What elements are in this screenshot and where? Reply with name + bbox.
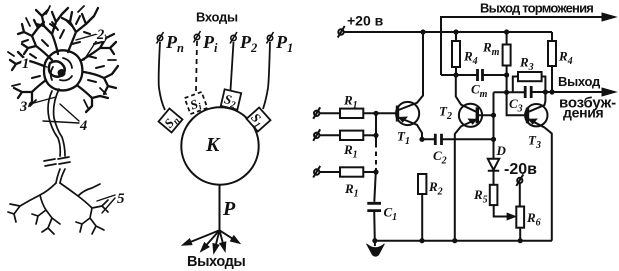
wire C2 line xyxy=(422,138,494,140)
neuron dendrites N xyxy=(36,8,68,54)
input terminal Pi xyxy=(194,31,201,43)
svg-text:-20в: -20в xyxy=(504,161,537,178)
svg-text:R1: R1 xyxy=(343,142,358,161)
synapse box Sn xyxy=(159,109,184,134)
resistor R1b xyxy=(340,131,363,140)
svg-text:C2: C2 xyxy=(433,148,447,167)
wire D-R5 xyxy=(493,171,495,185)
svg-text:Rm: Rm xyxy=(482,40,500,59)
svg-text:T2: T2 xyxy=(439,104,452,123)
wire R4r bottom xyxy=(551,66,553,92)
svg-text:Pn: Pn xyxy=(165,32,184,55)
wire Pn to Sn xyxy=(159,42,165,110)
input bus wire solid upper xyxy=(375,113,377,143)
svg-text:P2: P2 xyxy=(239,32,257,55)
axon right terminal branch xyxy=(60,183,108,234)
wire R2 bottom xyxy=(421,194,423,241)
input terminal P1 xyxy=(267,32,274,44)
axon break marks xyxy=(44,157,70,166)
ground xyxy=(374,241,376,246)
neuron dendrites E upper xyxy=(82,30,116,60)
neuron soma xyxy=(44,50,82,90)
transistor T2 xyxy=(459,104,482,127)
svg-text:R4: R4 xyxy=(558,49,573,68)
wire -20v to R6 xyxy=(519,183,521,207)
svg-text:4: 4 xyxy=(79,118,87,134)
svg-text:Выходы: Выходы xyxy=(187,254,245,270)
junction dots xyxy=(372,29,554,243)
svg-text:Выход: Выход xyxy=(558,74,601,89)
wire Rm bottom xyxy=(506,66,508,76)
resistor R1a xyxy=(340,109,363,118)
wire Rm top xyxy=(506,32,508,45)
wire C1-rail xyxy=(373,211,376,241)
resistor R3 xyxy=(518,72,542,81)
capacitor C3 xyxy=(525,86,531,98)
neuron label 4 pointer xyxy=(43,104,79,123)
synapse box S2 xyxy=(220,89,241,111)
wire R6 bottom xyxy=(519,228,521,241)
axon left terminal branch xyxy=(8,183,60,234)
wire Pi to Si (dashed) xyxy=(196,41,197,91)
svg-text:R6: R6 xyxy=(526,210,541,229)
input terminal 2 xyxy=(314,133,319,138)
resistor Rm xyxy=(503,45,511,66)
svg-text:R4: R4 xyxy=(463,49,478,68)
capacitor C2 xyxy=(435,134,441,145)
svg-text:D: D xyxy=(496,143,507,158)
input bus wire solid lower xyxy=(374,168,376,202)
input terminal Pn xyxy=(157,32,164,44)
wire Cm line xyxy=(441,74,507,76)
wire R3 left lead xyxy=(513,77,518,93)
svg-text:Входы: Входы xyxy=(196,10,238,25)
svg-text:R5: R5 xyxy=(473,187,488,206)
svg-text:Cm: Cm xyxy=(471,82,488,101)
neuron dendrites W xyxy=(10,52,44,70)
svg-text:Pi: Pi xyxy=(202,32,218,55)
wire R1a-bus xyxy=(363,112,397,114)
transistor T3 xyxy=(525,104,547,126)
transistor T1 xyxy=(396,102,419,125)
svg-text:1: 1 xyxy=(22,56,29,72)
wire R4l bottom xyxy=(455,67,457,75)
svg-text:Выход торможения: Выход торможения xyxy=(480,1,593,16)
svg-text:T3: T3 xyxy=(528,133,541,152)
wire terminal3-R1c xyxy=(319,171,340,173)
inhibition arrowhead xyxy=(602,13,616,21)
svg-text:+20 в: +20 в xyxy=(347,13,384,29)
wire terminal2-R1b xyxy=(319,134,340,136)
input terminal 1 xyxy=(314,111,319,116)
wire coupling y92 xyxy=(494,91,526,93)
neuron label 1 pointer xyxy=(33,62,47,67)
wire R1b-bus xyxy=(363,134,376,136)
svg-text:R3: R3 xyxy=(519,55,534,74)
diode D xyxy=(488,159,499,171)
wire R4l top xyxy=(455,32,457,41)
excitation arrowhead xyxy=(602,88,616,96)
resistor R4 left xyxy=(452,41,460,67)
neuron dendrites SE xyxy=(78,86,108,112)
input terminal P2 xyxy=(230,32,237,44)
neuron dendrites NE xyxy=(62,8,98,52)
svg-text:T1: T1 xyxy=(397,129,410,148)
neuron dendrites NW xyxy=(18,20,52,60)
resistor R2 xyxy=(418,174,426,194)
svg-text:2: 2 xyxy=(96,27,104,43)
lower axon double line xyxy=(56,169,65,183)
neuron dendrites SW xyxy=(14,80,46,108)
svg-text:3: 3 xyxy=(19,99,27,115)
neuron dendrite fill twigs xyxy=(22,16,104,82)
wire P2 to S2 xyxy=(231,42,234,90)
resistor R4 right xyxy=(548,41,556,66)
svg-text:R2: R2 xyxy=(428,179,443,198)
input bus wire dashed xyxy=(375,143,377,168)
wire P1 to S1 xyxy=(263,42,270,109)
svg-text:5: 5 xyxy=(117,191,125,207)
-20v terminal xyxy=(517,178,522,183)
svg-text:дения: дения xyxy=(563,105,604,121)
svg-text:K: K xyxy=(205,134,221,156)
resistor R1c xyxy=(340,167,363,176)
neuron label 2 pointer xyxy=(76,34,97,60)
input terminal 3 xyxy=(314,169,319,174)
wire R5 to R6 wiper arrow xyxy=(494,205,508,216)
svg-text:C1: C1 xyxy=(384,205,398,224)
wire node to T3 base xyxy=(507,75,527,115)
neuron label 5 pointers xyxy=(97,195,115,213)
resistor R5 xyxy=(490,185,498,205)
wire R1c-bus xyxy=(363,171,376,173)
svg-text:R1: R1 xyxy=(344,181,359,200)
capacitor C1 xyxy=(367,203,381,210)
soma circle K xyxy=(181,107,258,184)
neuron axon double line xyxy=(48,89,65,156)
neuron dendrites E lower xyxy=(84,66,118,94)
neuron label 3 pointer xyxy=(30,97,56,104)
inhibition output wire xyxy=(441,17,607,75)
svg-text:C3: C3 xyxy=(509,96,523,115)
synapse box S1 xyxy=(245,107,270,132)
output wire P xyxy=(219,185,221,231)
wire terminal1-R1a xyxy=(319,112,340,114)
bottom rail wire xyxy=(375,240,552,242)
wire R3 right lead xyxy=(542,77,546,93)
wire excitation line xyxy=(531,91,607,93)
wire R4r top xyxy=(551,32,553,41)
svg-text:P1: P1 xyxy=(275,32,293,55)
capacitor Cm xyxy=(478,69,483,81)
+20v terminal xyxy=(338,29,343,34)
resistor R6 xyxy=(516,207,524,228)
wire T2 base xyxy=(477,114,493,116)
synapse box Si (dashed) xyxy=(185,92,208,116)
output arrows fan xyxy=(182,230,241,254)
svg-text:P: P xyxy=(222,198,236,220)
wire base node vertical xyxy=(493,92,495,159)
+20v rail wire xyxy=(344,31,552,33)
